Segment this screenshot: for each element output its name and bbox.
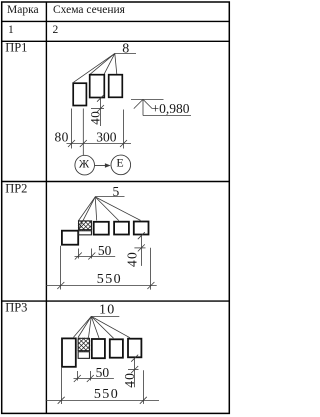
svg-text:40: 40: [122, 372, 137, 388]
svg-text:40: 40: [124, 251, 139, 267]
svg-text:2: 2: [53, 24, 59, 36]
svg-text:Марка: Марка: [7, 4, 39, 16]
svg-text:1: 1: [8, 24, 14, 36]
svg-text:ПР1: ПР1: [5, 41, 27, 55]
svg-text:10: 10: [99, 303, 115, 318]
svg-text:50: 50: [98, 243, 112, 258]
svg-text:80: 80: [55, 129, 69, 144]
svg-text:550: 550: [97, 272, 122, 287]
svg-text:ПР3: ПР3: [5, 301, 27, 315]
svg-text:50: 50: [96, 365, 110, 380]
svg-text:ПР2: ПР2: [5, 181, 27, 195]
svg-text:Схема сечения: Схема сечения: [53, 4, 126, 16]
svg-text:550: 550: [94, 387, 119, 402]
svg-text:Е: Е: [116, 156, 123, 170]
svg-text:5: 5: [113, 184, 120, 199]
svg-text:8: 8: [122, 42, 129, 57]
svg-text:40: 40: [87, 111, 102, 125]
svg-text:+0,980: +0,980: [152, 101, 190, 116]
svg-text:Ж: Ж: [79, 159, 90, 171]
svg-text:300: 300: [96, 129, 117, 144]
